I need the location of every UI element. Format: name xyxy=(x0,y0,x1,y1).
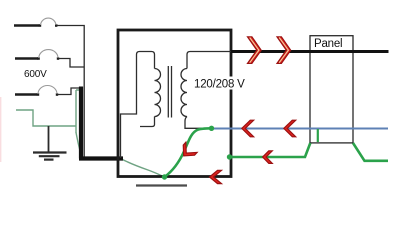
switch pole A contact dots xyxy=(39,24,41,27)
faint pink scan artifact at left edge xyxy=(0,97,2,162)
white backing for voltage label xyxy=(193,77,244,90)
primary winding bottom lead stub xyxy=(140,117,155,127)
equipment grounding conductor (green) transformer to panel xyxy=(230,143,389,161)
ground electrode symbol stem xyxy=(48,126,50,152)
ground symbol bar 2 xyxy=(39,155,60,157)
secondary winding X coil xyxy=(181,69,187,117)
fault current chevron on phase feeder (1) xyxy=(248,37,262,64)
ground symbol bar 1 xyxy=(33,151,67,153)
grounding electrode conductor (pale green) from service xyxy=(16,90,80,133)
svg-text:600V: 600V xyxy=(24,69,47,80)
primary winding H1 coil xyxy=(155,69,161,117)
secondary bottom lead to X0 node xyxy=(185,117,210,129)
ground symbol bar 3 xyxy=(44,159,54,161)
junction dot: EGC at enclosure wall xyxy=(227,154,232,159)
svg-text:Panel: Panel xyxy=(314,38,342,50)
pad / concrete line below transformer xyxy=(136,184,187,186)
junction dot: X0 neutral bond xyxy=(209,126,214,131)
fault return chevron on neutral (2) xyxy=(284,120,296,137)
pale green conductor sag dropping behind feeder riser xyxy=(76,133,81,155)
fault chevron on bonding jumper xyxy=(178,142,197,161)
fault return chevron on EGC (green run) xyxy=(263,151,273,164)
wire pole B jog to common riser xyxy=(58,59,84,68)
primary supply lead (staircase from feeder to winding top) xyxy=(121,52,155,159)
pale green conductor sag emerging inside enclosure to bond point xyxy=(120,158,165,177)
switch pole C blade arc xyxy=(38,86,57,94)
panel neutral-ground bond (green tick) xyxy=(317,129,319,142)
secondary top lead to enclosure wall xyxy=(187,52,231,69)
switch pole A blade arc xyxy=(41,18,57,25)
junction dot: bond at enclosure bottom xyxy=(162,174,167,179)
panel enclosure xyxy=(310,36,353,143)
thick feeder riser and run into transformer xyxy=(79,87,123,159)
fault current chevron on phase feeder (2) xyxy=(277,37,291,64)
switch pole B blade arc xyxy=(39,50,58,58)
system bonding jumper (green S-curve enclosure to X0) xyxy=(165,128,212,177)
transformer core laminations xyxy=(168,66,171,118)
svg-text:120/208 V: 120/208 V xyxy=(194,78,245,90)
secondary feeder phase conductor (thick black) to panel xyxy=(231,50,389,53)
fault return chevron on neutral (1) xyxy=(242,120,254,137)
switch pole A supply stub (thick) xyxy=(14,24,39,26)
switch pole C contact dots xyxy=(37,93,39,96)
wire pole C jog up to feeder xyxy=(57,88,79,95)
neutral conductor (blue) from X0 to panel and beyond xyxy=(212,128,389,130)
switch pole B supply stub (thick) xyxy=(15,57,38,59)
wire pole A to common riser xyxy=(57,26,85,158)
switch pole B contact dots xyxy=(37,57,39,60)
fault return chevron on enclosure bottom xyxy=(210,170,222,183)
switch pole C supply stub (thick) xyxy=(15,93,37,95)
transformer enclosure box xyxy=(118,30,231,177)
